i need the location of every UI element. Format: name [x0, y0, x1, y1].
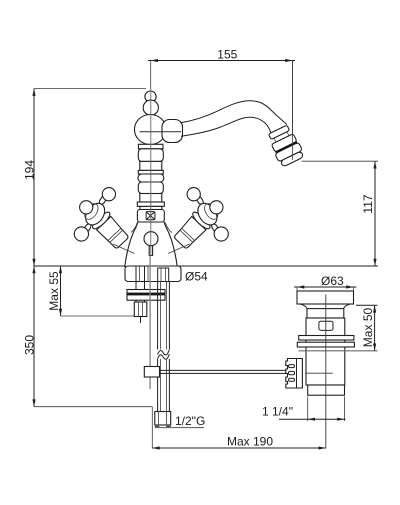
dim 155 group	[148, 47, 295, 160]
supply pipe inner right	[165, 282, 167, 412]
pipe break squiggle upper	[158, 350, 170, 355]
fitting inner line A	[158, 412, 160, 426]
ext line Max190 left	[151, 407, 153, 449]
diverter stem	[149, 246, 152, 256]
dim line 194	[33, 89, 35, 266]
column thin ring	[138, 170, 163, 174]
ext line 155 right	[292, 61, 294, 161]
left crease line	[113, 244, 135, 254]
plate inner line B	[147, 267, 149, 282]
arrow Max190 left	[152, 446, 159, 449]
left hub cap	[82, 201, 101, 222]
cartridge X diagonal 1	[146, 212, 155, 220]
drain taper right	[344, 304, 351, 309]
supply pipe outer left	[157, 282, 159, 412]
ext line D63 right	[353, 287, 355, 291]
column section 3	[140, 194, 162, 203]
knurl rim line	[296, 359, 298, 389]
drain flange	[297, 291, 354, 304]
ext line 117 top	[302, 160, 378, 162]
dim line 350	[33, 266, 35, 407]
left hub	[80, 199, 108, 229]
aerator collar 2	[271, 134, 297, 152]
cartridge X diagonal 2	[146, 212, 155, 220]
svg-text:Max 50: Max 50	[361, 308, 375, 348]
knurl slot 3	[289, 378, 295, 381]
arrow 155 left	[151, 59, 158, 62]
underside line	[299, 350, 378, 352]
dim line 155	[148, 60, 295, 62]
dim line Max55	[60, 266, 62, 316]
arrow Max50 down	[373, 344, 376, 351]
ext line 114 right	[344, 397, 346, 422]
dim Max 190 group	[152, 407, 325, 450]
faucet centerline	[150, 89, 152, 256]
left stem top	[99, 195, 108, 207]
plate inner line A	[139, 267, 141, 282]
dim line 117	[374, 161, 376, 266]
drain neck	[307, 309, 344, 318]
right ball front	[210, 201, 223, 214]
column barrel 1	[138, 149, 163, 162]
left cone collar line B	[110, 230, 123, 242]
drain upper body	[306, 318, 345, 385]
right stem bottom	[211, 222, 220, 234]
ext line 114 left	[307, 397, 309, 422]
knurl slot 2	[289, 371, 295, 374]
pipe break mask	[156, 350, 170, 360]
fitting bottom tick right	[166, 425, 171, 427]
aerator collar 1	[268, 125, 289, 139]
drain rod midline	[306, 372, 333, 374]
rod guide block	[158, 268, 169, 282]
fitting bottom tick left	[155, 425, 160, 427]
spout lower curve	[181, 117, 271, 136]
nut stub	[140, 317, 142, 324]
ext line 155 right overlay	[292, 61, 294, 161]
left ball bottom	[74, 227, 88, 241]
arrow D63 right	[346, 285, 353, 288]
arrow 114 left	[308, 418, 315, 421]
left valve cone	[97, 216, 130, 249]
dim 1 1/4 group	[262, 397, 346, 422]
right boss curve	[165, 222, 172, 232]
pop-up rod vertical	[149, 256, 151, 390]
right hub cap	[202, 201, 221, 222]
arrow 114 right	[337, 418, 344, 421]
supply pipe outer right	[168, 282, 170, 412]
right ball bottom	[214, 227, 228, 241]
arrow 350 down	[32, 399, 35, 406]
column neck	[140, 206, 162, 209]
label 1/2G leader	[155, 427, 204, 429]
nut facet line A	[137, 302, 139, 317]
ext line Max55 bottom	[61, 315, 148, 317]
finial ball	[145, 91, 156, 102]
stud line left	[135, 267, 137, 302]
svg-text:Max 55: Max 55	[47, 271, 61, 311]
mounting nut	[134, 302, 147, 317]
svg-text:1 1/4": 1 1/4"	[262, 405, 293, 419]
overflow window	[319, 321, 333, 330]
knurled nut	[286, 359, 303, 389]
aerator end cap	[280, 151, 304, 167]
right valve cone	[173, 216, 206, 249]
washer gasket band	[127, 293, 165, 296]
arrow 117 down	[373, 259, 376, 266]
drain centerline	[325, 295, 327, 449]
svg-text:194: 194	[23, 160, 37, 180]
dim 117 group	[302, 161, 378, 266]
column flare ring	[137, 202, 164, 206]
body sphere	[135, 115, 167, 145]
spout joint cap	[162, 120, 183, 143]
locknut plate 2	[297, 342, 354, 347]
nut facet line B	[142, 302, 144, 317]
arrow Max50 up	[373, 305, 376, 312]
aerator ring 3	[275, 142, 303, 162]
right valve group	[172, 210, 213, 251]
aerator dark seam	[275, 142, 297, 153]
arrow Max55 down	[59, 309, 62, 316]
rod clamp block	[144, 367, 159, 378]
right stem front	[210, 204, 218, 212]
locknut plate 1	[299, 336, 354, 341]
svg-text:155: 155	[217, 47, 237, 61]
washer plate	[127, 290, 165, 301]
sphere equator line	[140, 131, 182, 133]
svg-text:Ø54: Ø54	[185, 270, 208, 284]
drain taper left	[300, 304, 307, 309]
dim line 114	[279, 418, 346, 420]
ext line 350 bottom	[34, 406, 152, 408]
arrow 350 up	[32, 266, 35, 273]
arrow D63 left	[297, 285, 304, 288]
1/2G fitting	[155, 412, 171, 426]
right ball top	[187, 188, 200, 201]
pipe break squiggle lower	[158, 354, 170, 359]
aerator tube stub lower	[274, 138, 277, 143]
arrow 194 up	[32, 89, 35, 96]
column barrel 2	[138, 182, 163, 194]
rod guide inner line B	[165, 268, 167, 282]
faucet column ring 1	[138, 144, 163, 149]
arrow Max190 right	[319, 446, 326, 449]
svg-text:117: 117	[361, 194, 375, 213]
arrow 117 up	[373, 161, 376, 168]
aerator tube stub upper	[287, 131, 290, 136]
column section 2	[140, 161, 162, 170]
ext line D63 left	[296, 287, 298, 291]
left boss curve	[131, 222, 138, 232]
horizontal rod upper line	[160, 369, 288, 371]
arrow 155 right	[285, 59, 292, 62]
arrow 194 down	[32, 259, 35, 266]
left stem front	[85, 204, 93, 212]
right handle flange	[191, 210, 213, 231]
dim 194 group	[23, 89, 147, 266]
left ball top	[102, 188, 115, 201]
right cone collar line A	[182, 228, 195, 240]
arrow Max55 up	[59, 266, 62, 273]
ext line 194 top	[34, 88, 146, 90]
upper ball	[143, 100, 158, 115]
ext line 155 left	[150, 61, 152, 90]
right stem top	[195, 195, 204, 207]
dim Max 50 group	[356, 305, 378, 351]
dim Max 55 group	[47, 266, 147, 316]
cartridge block	[137, 210, 164, 223]
left cone collar line A	[108, 228, 121, 240]
fitting inner line B	[166, 412, 168, 426]
diverter circle	[144, 232, 158, 246]
svg-text:Max 190: Max 190	[227, 435, 273, 449]
aerator rings	[266, 124, 306, 168]
Max50 dim line	[374, 305, 376, 351]
left valve group	[90, 210, 131, 251]
dim line D63	[294, 286, 357, 288]
svg-text:Ø63: Ø63	[321, 274, 344, 288]
svg-text:350: 350	[23, 335, 37, 355]
spout upper curve	[181, 101, 287, 125]
supply pipe inner left	[160, 282, 162, 412]
dome body	[125, 222, 177, 267]
column bead	[138, 174, 164, 182]
dim D63 group	[294, 274, 357, 291]
mounting surface line	[34, 265, 378, 267]
right handle	[165, 188, 228, 254]
horizontal rod lower line	[160, 372, 288, 374]
left ball front	[80, 201, 93, 214]
rod guide inner line A	[160, 268, 162, 282]
knurl slot 1	[289, 365, 295, 368]
right hub	[194, 199, 222, 229]
tailpiece	[308, 385, 345, 395]
dim line Max190	[152, 447, 325, 449]
right cone collar line B	[180, 230, 193, 242]
left stem bottom	[83, 222, 92, 234]
left handle flange	[90, 210, 112, 231]
stud line right	[144, 267, 146, 302]
cartridge inner square	[146, 212, 155, 220]
base plate	[125, 266, 181, 282]
svg-text:1/2"G: 1/2"G	[175, 414, 205, 428]
dim 350 group	[23, 266, 153, 407]
Max50 top tick	[356, 304, 378, 306]
left handle	[74, 188, 131, 251]
right crease line	[168, 244, 190, 254]
